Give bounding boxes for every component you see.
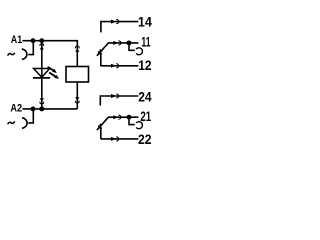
connector pin on 22 wire xyxy=(111,137,119,141)
socket hook at 21 xyxy=(129,117,135,124)
contact2: NO branch terminal 24 wire xyxy=(100,96,138,106)
contact2 arm (common 21) xyxy=(97,117,138,130)
connector pin on 21 wire xyxy=(113,115,121,119)
LED D triangle xyxy=(34,69,50,78)
svg-text:12: 12 xyxy=(138,57,152,73)
coil K rectangle xyxy=(66,67,89,83)
svg-text:22: 22 xyxy=(138,131,152,147)
node dot terminal 11 xyxy=(127,40,132,45)
node junction dot A1-LED xyxy=(39,38,44,43)
svg-text:21: 21 xyxy=(140,108,151,124)
node junction dot A2-LED xyxy=(39,106,44,111)
socket circle at 11 xyxy=(136,48,142,55)
NC stub socket arc (to arm) xyxy=(98,51,101,54)
svg-text:A2: A2 xyxy=(10,103,22,115)
socket arc A2 xyxy=(22,118,27,129)
contact2: NC branch terminal 22 wire xyxy=(101,138,139,140)
connector pin on coil top wire xyxy=(75,46,79,52)
socket hook at 11 xyxy=(129,43,135,50)
wire A2 bus xyxy=(22,108,77,110)
AC tilde A2 xyxy=(8,121,15,124)
svg-text:24: 24 xyxy=(138,89,152,105)
connector pin on 11 wire xyxy=(113,41,121,45)
connector pin on LED bottom wire xyxy=(40,98,44,104)
LED emission arrow 2 xyxy=(49,73,59,79)
svg-text:11: 11 xyxy=(141,34,150,50)
svg-text:A1: A1 xyxy=(11,34,22,46)
node dot terminal 21 xyxy=(127,115,132,120)
connector pin on 14 wire xyxy=(111,20,119,24)
socket arc A1 xyxy=(22,49,27,60)
NC stub socket arc 2 xyxy=(98,126,101,129)
wire coil bottom xyxy=(76,82,78,109)
svg-text:14: 14 xyxy=(138,13,152,29)
contact arm (common 11) xyxy=(97,43,138,56)
contact: NC branch terminal 12 wire xyxy=(101,65,139,67)
wire A2 socket leg xyxy=(28,109,33,123)
connector pin on coil bottom wire xyxy=(75,97,79,103)
node junction dot A1-left xyxy=(31,38,36,43)
NC branch stub from 22 xyxy=(100,127,102,139)
connector pin on LED top wire xyxy=(40,44,44,50)
LED emission arrow 1 xyxy=(48,67,57,73)
socket circle at 21 xyxy=(136,122,142,129)
node junction dot A2-left xyxy=(31,106,36,111)
connector pin on 24 wire xyxy=(111,94,119,98)
AC tilde A1 xyxy=(8,53,15,56)
contact arm pin arrowhead xyxy=(99,49,103,53)
wire A1 socket leg xyxy=(28,41,33,55)
LED cathode bar xyxy=(33,77,50,79)
contact2 arm pin arrowhead xyxy=(99,123,103,127)
contact: NO branch terminal 14 wire xyxy=(101,22,138,33)
NC branch stub from 12 xyxy=(100,53,102,66)
wire A1 node horizontal + down to coil xyxy=(22,41,77,67)
connector pin on 12 wire xyxy=(111,64,119,68)
wire LED vertical xyxy=(41,41,43,109)
